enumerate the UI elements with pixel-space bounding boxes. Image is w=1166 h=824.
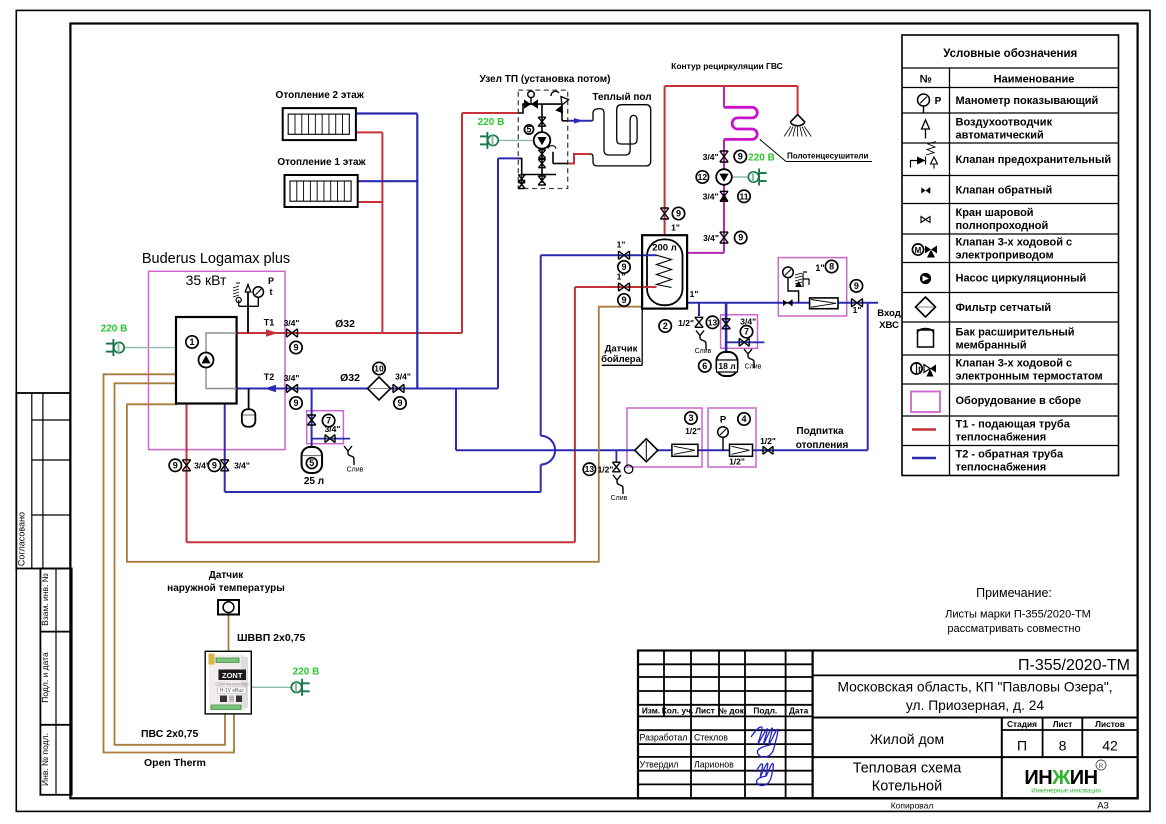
svg-text:теплоснабжения: теплоснабжения	[956, 462, 1047, 474]
svg-text:Бак расширительный: Бак расширительный	[956, 327, 1075, 339]
svg-text:Дата: Дата	[789, 706, 809, 716]
svg-text:3: 3	[688, 413, 693, 423]
svg-text:теплоснабжения: теплоснабжения	[956, 432, 1047, 444]
svg-text:Узел ТП (установка потом): Узел ТП (установка потом)	[479, 74, 610, 85]
svg-text:Копировал: Копировал	[891, 801, 934, 811]
svg-text:Тепловая схема: Тепловая схема	[853, 761, 963, 777]
svg-text:Московская область, КП "Павлов: Московская область, КП "Павловы Озера",	[837, 680, 1112, 695]
svg-text:9: 9	[293, 343, 298, 353]
svg-text:Примечание:: Примечание:	[976, 586, 1052, 600]
svg-text:ШВВП 2х0,75: ШВВП 2х0,75	[237, 632, 305, 644]
svg-text:1/2": 1/2"	[729, 457, 745, 467]
svg-text:Отопление 1 этаж: Отопление 1 этаж	[277, 157, 366, 168]
svg-text:3/4": 3/4"	[325, 424, 341, 434]
svg-text:Наименование: Наименование	[994, 74, 1075, 86]
svg-text:Ø32: Ø32	[335, 318, 355, 330]
svg-text:9: 9	[676, 209, 681, 219]
svg-text:ул. Приозерная, д. 24: ул. Приозерная, д. 24	[906, 698, 1044, 713]
svg-text:9: 9	[212, 460, 217, 470]
svg-text:13: 13	[585, 464, 595, 474]
svg-text:2: 2	[663, 321, 668, 331]
svg-text:М: М	[915, 246, 922, 255]
svg-text:электронным термостатом: электронным термостатом	[956, 371, 1103, 383]
svg-text:3/4": 3/4"	[703, 152, 719, 162]
svg-text:1": 1"	[617, 240, 626, 250]
svg-text:3/4": 3/4"	[234, 461, 250, 471]
svg-text:R: R	[1099, 763, 1104, 770]
svg-text:Инв. № подл.: Инв. № подл.	[40, 733, 50, 786]
svg-text:P: P	[268, 276, 274, 286]
svg-text:ПВС 2х0,75: ПВС 2х0,75	[141, 728, 199, 740]
svg-text:Р: Р	[935, 96, 942, 107]
svg-text:5: 5	[309, 458, 314, 468]
svg-text:отопления: отопления	[796, 440, 849, 451]
svg-text:бойлера: бойлера	[601, 354, 642, 365]
svg-text:Слив: Слив	[695, 348, 712, 355]
svg-text:Вход: Вход	[877, 308, 901, 319]
svg-text:Согласовано: Согласовано	[17, 512, 27, 566]
svg-text:Подпитка: Подпитка	[796, 426, 844, 437]
svg-text:ИНЖИН: ИНЖИН	[1024, 767, 1097, 789]
svg-text:220 В: 220 В	[478, 117, 505, 128]
svg-text:Фильтр сетчатый: Фильтр сетчатый	[956, 302, 1052, 314]
svg-text:Оборудование в сборе: Оборудование в сборе	[956, 395, 1082, 407]
svg-text:9: 9	[621, 262, 626, 272]
svg-text:9: 9	[738, 152, 743, 162]
svg-text:Open Therm: Open Therm	[144, 757, 206, 769]
svg-text:Разработал: Разработал	[640, 733, 688, 743]
svg-text:Подл.: Подл.	[753, 706, 777, 716]
svg-text:Взам. инв. №: Взам. инв. №	[40, 573, 50, 626]
svg-text:Клапан предохранительный: Клапан предохранительный	[956, 154, 1112, 166]
svg-text:T2: T2	[264, 372, 275, 382]
svg-text:3/4": 3/4"	[395, 372, 411, 382]
svg-text:Ларионов: Ларионов	[694, 759, 734, 769]
svg-text:автоматический: автоматический	[956, 130, 1044, 142]
svg-text:Подл. и дата: Подл. и дата	[40, 652, 50, 703]
svg-text:T1: T1	[264, 318, 275, 328]
svg-text:3/4": 3/4"	[284, 373, 300, 383]
svg-text:Условные обозначения: Условные обозначения	[943, 48, 1077, 60]
svg-text:Датчик: Датчик	[209, 570, 245, 581]
svg-text:35 кВт: 35 кВт	[186, 272, 227, 288]
svg-text:3/4": 3/4"	[284, 318, 300, 328]
svg-text:№: №	[920, 74, 932, 86]
svg-text:Утвердил: Утвердил	[640, 759, 679, 769]
svg-text:Котельной: Котельной	[872, 779, 942, 795]
svg-text:10: 10	[374, 364, 384, 374]
svg-text:1/2": 1/2"	[678, 318, 694, 328]
svg-text:11: 11	[740, 191, 749, 201]
svg-text:Теплый пол: Теплый пол	[592, 92, 651, 103]
svg-text:13: 13	[708, 317, 718, 327]
svg-text:Листов: Листов	[1095, 719, 1125, 729]
svg-text:Манометр показывающий: Манометр показывающий	[956, 95, 1099, 107]
svg-text:Стеклов: Стеклов	[694, 733, 728, 743]
svg-text:Воздухоотводчик: Воздухоотводчик	[956, 117, 1053, 129]
svg-text:Полотенцесушители: Полотенцесушители	[787, 152, 868, 161]
svg-text:Насос циркуляционный: Насос циркуляционный	[956, 273, 1087, 285]
svg-text:П: П	[1017, 738, 1027, 754]
svg-text:Клапан 3-х ходовой с: Клапан 3-х ходовой с	[956, 358, 1073, 370]
svg-text:1": 1"	[617, 272, 626, 282]
svg-text:Клапан обратный: Клапан обратный	[956, 185, 1053, 197]
svg-text:9: 9	[397, 398, 402, 408]
svg-text:9: 9	[293, 398, 298, 408]
svg-text:Ø32: Ø32	[340, 372, 360, 384]
svg-text:рассматривать совместно: рассматривать совместно	[947, 623, 1080, 635]
svg-text:Отопление 2 этаж: Отопление 2 этаж	[276, 90, 365, 101]
svg-text:1: 1	[189, 337, 194, 347]
svg-text:GSM контроллер: GSM контроллер	[215, 682, 249, 687]
svg-text:Инженерные инновации: Инженерные инновации	[1031, 788, 1101, 795]
svg-text:9: 9	[738, 233, 743, 243]
svg-text:Buderus Logamax plus: Buderus Logamax plus	[142, 251, 290, 267]
svg-text:25 л: 25 л	[304, 476, 324, 487]
svg-text:1/2": 1/2"	[685, 426, 701, 436]
svg-text:200 л: 200 л	[652, 243, 677, 254]
svg-text:1/2": 1/2"	[598, 465, 614, 475]
svg-text:наружной температуры: наружной температуры	[167, 583, 285, 594]
svg-text:1": 1"	[671, 223, 680, 233]
svg-text:1": 1"	[815, 263, 824, 273]
svg-text:полнопроходной: полнопроходной	[956, 220, 1049, 232]
svg-text:6: 6	[702, 361, 707, 371]
svg-text:9: 9	[621, 295, 626, 305]
svg-text:Клапан 3-х ходовой с: Клапан 3-х ходовой с	[956, 237, 1073, 249]
svg-text:ZONT: ZONT	[222, 671, 243, 680]
svg-text:7: 7	[744, 327, 749, 337]
svg-text:А3: А3	[1097, 801, 1109, 812]
svg-text:Кол. уч.: Кол. уч.	[662, 706, 694, 716]
svg-text:Изм.: Изм.	[642, 706, 660, 716]
svg-text:42: 42	[1102, 738, 1118, 754]
svg-text:Листы марки П-355/2020-ТМ: Листы марки П-355/2020-ТМ	[945, 609, 1091, 621]
svg-text:P: P	[720, 415, 727, 426]
svg-text:Кран шаровой: Кран шаровой	[956, 207, 1034, 219]
svg-text:t: t	[270, 287, 273, 297]
svg-text:Слив: Слив	[611, 495, 628, 502]
svg-text:Т2 - обратная труба: Т2 - обратная труба	[956, 449, 1064, 461]
svg-text:12: 12	[698, 172, 708, 182]
svg-text:4: 4	[741, 414, 746, 424]
svg-text:Контур рециркуляции ГВС: Контур рециркуляции ГВС	[671, 61, 783, 71]
svg-text:Лист: Лист	[1053, 719, 1073, 729]
svg-text:№ док.: № док.	[718, 706, 746, 716]
svg-text:Лист: Лист	[695, 706, 715, 716]
svg-text:8: 8	[1059, 738, 1067, 754]
svg-text:ХВС: ХВС	[879, 320, 899, 331]
svg-text:3/4": 3/4"	[703, 192, 719, 202]
svg-text:8: 8	[829, 262, 834, 272]
svg-text:H-1V eBus: H-1V eBus	[220, 688, 245, 694]
svg-text:220 В: 220 В	[748, 153, 775, 164]
svg-text:Слив: Слив	[745, 364, 762, 371]
svg-text:3/4": 3/4"	[703, 233, 719, 243]
svg-text:Т1 - подающая труба: Т1 - подающая труба	[956, 419, 1071, 431]
svg-text:мембранный: мембранный	[956, 340, 1027, 352]
svg-text:1": 1"	[853, 305, 862, 315]
svg-text:Жилой дом: Жилой дом	[870, 731, 944, 747]
svg-text:электроприводом: электроприводом	[956, 250, 1054, 262]
svg-text:Датчик: Датчик	[605, 344, 638, 355]
svg-text:220 В: 220 В	[293, 667, 320, 678]
svg-text:1": 1"	[690, 289, 699, 299]
svg-text:Слив: Слив	[347, 467, 364, 474]
svg-text:1/2": 1/2"	[760, 436, 776, 446]
svg-text:5: 5	[526, 125, 531, 135]
svg-text:П-355/2020-ТМ: П-355/2020-ТМ	[1018, 657, 1130, 674]
svg-text:18 л: 18 л	[718, 361, 735, 371]
svg-text:9: 9	[854, 281, 859, 291]
svg-text:9: 9	[173, 460, 178, 470]
svg-text:Стадия: Стадия	[1007, 719, 1037, 729]
svg-text:220 В: 220 В	[101, 324, 128, 335]
svg-text:t: t	[918, 365, 921, 374]
